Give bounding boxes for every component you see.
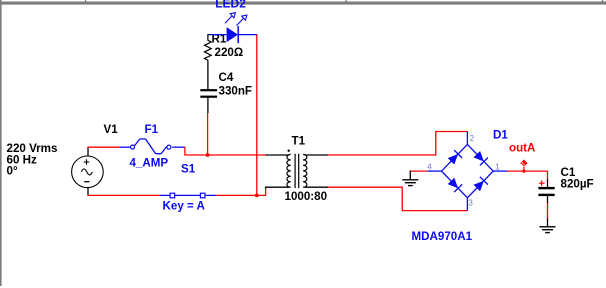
T1 primary bottom pin [266, 187, 290, 188]
net flag hatch detail [521, 164, 523, 166]
T1 primary top pin [266, 154, 290, 156]
wire T1 secondary bottom to bridge pin 3 [328, 187, 467, 210]
T1 secondary bottom pin [305, 186, 329, 188]
bridge rectifier D1 [427, 132, 507, 211]
bridge pin 1 lead [493, 170, 507, 172]
wire outA down to C1 [547, 171, 549, 179]
V1 top pin stub [87, 147, 89, 156]
svg-text:220Ω: 220Ω [215, 46, 244, 59]
bridge diode (pin2 to pin1) [474, 151, 484, 162]
bridge diode (pin4 to pin2) [448, 154, 458, 165]
T1 core lines [294, 154, 296, 188]
svg-text:1000:80: 1000:80 [285, 190, 328, 203]
bridge diode (pin3 to pin1) [474, 181, 484, 192]
LED anode wire [210, 34, 227, 36]
wire C1 to ground [547, 203, 549, 219]
toolbar tick left [85, 0, 86, 2]
svg-text:T1: T1 [292, 135, 306, 148]
svg-text:MDA970A1: MDA970A1 [412, 230, 473, 243]
svg-text:V1: V1 [104, 123, 119, 136]
V1 bottom pin stub [87, 187, 89, 195]
svg-text:LED2: LED2 [215, 0, 246, 11]
ground (C1) [540, 219, 556, 233]
bridge pin 2 lead [466, 132, 468, 145]
V1 minus sign [84, 181, 89, 183]
svg-text:F1: F1 [145, 123, 159, 136]
fuse F1 right pin [172, 146, 185, 148]
node junction top rail / LED branch [206, 153, 210, 157]
T1 primary winding [287, 154, 291, 187]
wire V1 top to F1 [87, 146, 120, 148]
svg-text:330nF: 330nF [219, 85, 253, 98]
transformer T1 [266, 150, 329, 189]
node junction LED return / bottom rail [255, 194, 259, 198]
svg-text:1: 1 [495, 163, 500, 172]
T1 secondary top pin [305, 154, 329, 156]
svg-text:820µF: 820µF [561, 177, 594, 190]
switch S1 [160, 193, 216, 198]
LED arrow 2 [236, 15, 247, 26]
wire S1 to T1 primary bottom [216, 188, 265, 196]
wire V1 bottom to S1 [87, 194, 160, 196]
C1 plus sign [539, 182, 545, 184]
net flag outA [520, 160, 527, 173]
svg-text:D1: D1 [493, 129, 508, 142]
wire branch junction up to C4 [207, 113, 209, 156]
LED triangle [227, 27, 238, 42]
svg-text:3: 3 [468, 199, 473, 208]
wire bridge pin 1 to C1 [507, 170, 548, 172]
toolbar tick mid [345, 0, 346, 2]
wire ground to bridge pin 4 [410, 170, 428, 172]
svg-text:S1: S1 [181, 162, 196, 175]
svg-text:4: 4 [427, 163, 432, 172]
wire LED return down branch [256, 35, 258, 196]
svg-text:outA: outA [509, 142, 536, 155]
ground (bridge) [402, 171, 418, 186]
bridge diode (pin4 to pin3) [448, 178, 458, 189]
wire top rail to T1 primary [185, 147, 266, 155]
wire T1 secondary top to bridge pin 2 [328, 132, 467, 156]
toolbar bottom bar [0, 2, 606, 5]
resistor R1 [205, 35, 212, 62]
svg-text:0°: 0° [7, 165, 18, 178]
fuse F1 [131, 139, 185, 154]
left window border [0, 0, 2, 286]
source V1 circle [72, 156, 104, 188]
bridge pin 3 lead [466, 198, 468, 211]
capacitor C4 [200, 62, 217, 113]
LED arrow 1 [225, 13, 236, 24]
bridge pin 4 lead [427, 170, 441, 172]
svg-text:2: 2 [470, 134, 475, 143]
V1 plus sign [84, 161, 89, 163]
svg-text:4_AMP: 4_AMP [130, 157, 169, 170]
svg-text:Key = A: Key = A [163, 200, 206, 213]
fuse F1 left pin [120, 146, 130, 148]
bridge diamond outline [442, 144, 494, 197]
T1 polarity dot [288, 150, 290, 152]
LED LED2 [210, 13, 258, 43]
capacitor C1 [538, 179, 554, 204]
LED cathode wire [238, 34, 257, 36]
LED cathode bar [237, 26, 239, 43]
V1 sine symbol [81, 169, 92, 175]
toolbar tick right [602, 0, 603, 2]
svg-text:C4: C4 [219, 71, 234, 84]
T1 secondary winding [303, 154, 307, 187]
